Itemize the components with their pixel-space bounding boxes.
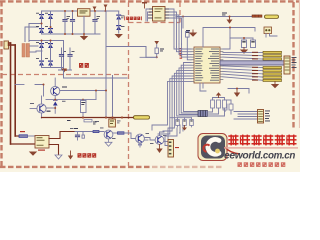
resistor R6 bbox=[229, 104, 233, 110]
wire rail y78 lower-left bbox=[64, 70, 128, 78]
inductor L1 yellow pill bbox=[265, 15, 279, 18]
LED D6 bbox=[116, 25, 121, 30]
label 电源 bbox=[79, 63, 89, 68]
junction dots top rail bbox=[41, 10, 107, 35]
ground under zener branch bbox=[116, 35, 122, 38]
outer dashed border frame bbox=[0, 1, 300, 167]
VCC arrow mid rail bbox=[93, 7, 97, 12]
resistor R3 bbox=[155, 48, 164, 54]
resistor R9 bbox=[19, 135, 28, 138]
wire crystal caps bbox=[230, 28, 277, 41]
VCC bar above IR receiver bbox=[142, 2, 147, 8]
resistor R8 below rail bbox=[84, 120, 92, 122]
ground arrow right of U5 bbox=[68, 151, 73, 160]
VCC arrow top bbox=[104, 5, 108, 12]
vertical section line bbox=[128, 2, 130, 166]
ground open under U5 bbox=[55, 155, 62, 159]
IR receiver U3 bbox=[153, 7, 166, 22]
wire lower bridge output right bbox=[59, 41, 72, 71]
ground open under Q3 bbox=[105, 139, 112, 146]
red swoosh bbox=[225, 147, 241, 154]
diode D2 bbox=[48, 14, 53, 19]
resistor R11 on drive rail bbox=[93, 130, 99, 132]
label J2 bbox=[292, 57, 297, 68]
ground under regulator bbox=[81, 34, 87, 40]
wire main brown rail bbox=[42, 117, 135, 119]
SECTION: watermark bbox=[150, 128, 300, 172]
transistor Q3 bbox=[104, 130, 113, 139]
wire resistor pack to caps row bbox=[208, 108, 225, 116]
SECTION: power supply top-left bbox=[4, 5, 125, 145]
resistor R10 bbox=[118, 132, 125, 134]
IR block right line bbox=[179, 2, 181, 23]
capacitor C11 bbox=[176, 120, 180, 126]
wire regulator gnd pin bbox=[83, 16, 85, 34]
diode D7 bbox=[39, 43, 44, 48]
wire loop to connector pins bbox=[165, 122, 183, 146]
SECTION: mcu bbox=[106, 2, 223, 139]
watermark slogan bbox=[238, 162, 242, 167]
scan edge strip right bbox=[299, 0, 300, 172]
wire to connector J3 bbox=[225, 100, 258, 119]
diode D4 bbox=[48, 28, 53, 33]
resistor R5 bbox=[223, 104, 227, 110]
resistor array RN2 bbox=[263, 67, 282, 82]
wire MCU right pins to resistor array 1 bbox=[223, 38, 263, 59]
IR receiver right pins bbox=[165, 9, 170, 18]
watermark title 电子工程世界 bbox=[228, 135, 238, 146]
wire 0V bottom rail bbox=[42, 33, 101, 35]
wire Q2 connections bbox=[30, 96, 96, 118]
transistor Q5 bbox=[155, 136, 164, 145]
inductor L2 yellow pill bbox=[134, 116, 150, 119]
diode D8 bbox=[48, 43, 53, 48]
wire Q1 collector rail bbox=[55, 78, 106, 100]
small parts near Q2 bbox=[30, 101, 66, 112]
section divider dashed lines bbox=[2, 2, 180, 166]
wire feed left amp bbox=[15, 85, 43, 97]
resistor R1 bbox=[252, 15, 262, 17]
IC U5 bbox=[35, 136, 49, 149]
wire U5 outputs bbox=[49, 132, 75, 155]
watermark background patch bbox=[224, 128, 300, 172]
junction dots crystal bbox=[229, 27, 245, 40]
MCU U1 body bbox=[194, 47, 220, 83]
ground on top rail bbox=[227, 17, 233, 24]
wire zener branch bbox=[118, 11, 120, 33]
capacitor row C9 bbox=[211, 100, 227, 108]
label 驱动电路 bbox=[78, 153, 97, 157]
IR receiver left pins bbox=[149, 9, 153, 18]
wire long top rail bbox=[176, 16, 252, 18]
label R1 bbox=[222, 13, 227, 16]
zener D5 bbox=[116, 15, 121, 20]
lower bridge top rail bbox=[30, 40, 64, 42]
SECTION: right side bbox=[176, 13, 297, 124]
horizontal power-section line bbox=[2, 74, 129, 76]
ground near R4 bbox=[190, 30, 196, 36]
wire Q4 to Q5 bbox=[144, 138, 155, 141]
label U5 bbox=[38, 150, 45, 151]
wire R7 leads bbox=[82, 100, 84, 118]
ground under RN2 bbox=[272, 81, 278, 87]
diode D11 under Q1 bbox=[53, 96, 58, 114]
labels RN2 bbox=[252, 67, 258, 81]
wire upper bridge verticals bbox=[42, 11, 51, 34]
svg-text:eeworld.com.cn: eeworld.com.cn bbox=[224, 151, 295, 162]
ground under Q5 bbox=[156, 144, 162, 153]
label R9 bbox=[20, 131, 25, 132]
transistor Q4 bbox=[136, 134, 145, 143]
capacitor C1 bbox=[62, 11, 67, 34]
ground under C13 bbox=[191, 126, 193, 128]
crystal Y1 bbox=[264, 27, 272, 34]
junction dots amp bbox=[43, 84, 108, 110]
optocoupler U4 bbox=[109, 119, 116, 127]
label 红外接收 bbox=[124, 16, 142, 20]
resistor R7 bbox=[81, 101, 87, 113]
diode D10 bbox=[48, 61, 53, 66]
transistor Q2 bbox=[37, 104, 46, 113]
label vertical red ref left of MCU bbox=[180, 48, 183, 59]
wire Q3 to R10 bbox=[113, 132, 118, 134]
watermark url eeworld.com.cn bbox=[224, 147, 298, 148]
regulator U2 7805 bbox=[78, 9, 91, 17]
junction dot top rail bbox=[182, 16, 231, 18]
junction dot node bbox=[236, 88, 238, 90]
MCU pin text rows bbox=[195, 49, 219, 81]
IR block bottom line bbox=[129, 22, 181, 24]
eeworld logo box bbox=[198, 134, 227, 161]
ground under lower bridge bbox=[61, 69, 67, 73]
wire drive rail bbox=[75, 132, 104, 139]
wire lower bridge verticals bbox=[42, 41, 64, 68]
capacitor C2 bbox=[70, 11, 75, 34]
ground under C7 bbox=[241, 48, 247, 54]
ground small left bbox=[30, 152, 36, 155]
transistor Q1 bbox=[51, 86, 60, 95]
capacitor C7 bbox=[242, 40, 247, 48]
wire MCU bottom stubs bbox=[200, 83, 206, 91]
connector J4 bbox=[168, 140, 179, 158]
power arrow above R3 bbox=[154, 41, 159, 48]
label J3 bbox=[265, 111, 270, 122]
capacitor C12 bbox=[183, 120, 187, 126]
diode D3 bbox=[39, 28, 44, 33]
diode D9 bbox=[39, 61, 44, 66]
SECTION: bottom bbox=[11, 70, 194, 160]
ground below node bbox=[234, 89, 240, 98]
capacitor C5 bbox=[67, 48, 72, 70]
MCU right pin stubs bbox=[220, 49, 223, 80]
label Q1 bbox=[62, 87, 67, 88]
resistor R4 pullup bbox=[186, 32, 190, 38]
capacitor C10 bbox=[74, 128, 80, 140]
wire filter cap row feed bbox=[170, 118, 192, 120]
labels RN1 bbox=[252, 52, 258, 60]
labels diodes caps bbox=[36, 13, 125, 59]
wire node y57 to dashed area bbox=[146, 56, 157, 58]
wire +V top rail bbox=[42, 10, 119, 12]
wire reset loop bbox=[203, 28, 255, 48]
ground under C12 bbox=[182, 126, 187, 131]
transformer T1 winding bbox=[22, 44, 30, 58]
label U3 red ref bbox=[148, 12, 151, 13]
capacitor C4 bbox=[59, 48, 64, 70]
wire Q4 emitter parts bbox=[138, 143, 142, 147]
wire vertical x112 bbox=[112, 76, 114, 118]
wire R3 to node bbox=[140, 54, 157, 58]
connector J1 mains input bbox=[4, 41, 9, 49]
capacitor C6 label bbox=[186, 30, 190, 33]
capacitor C13 bbox=[190, 120, 194, 126]
junction dots lower bridge bbox=[41, 40, 68, 72]
connector J3 bbox=[258, 110, 264, 124]
wire winding taps to upper bridge bbox=[25, 24, 42, 53]
junction dot R3 bbox=[156, 56, 158, 58]
wire IR left pins drop bbox=[146, 9, 149, 21]
wire horizontal feed y47 bbox=[106, 11, 146, 118]
wire MCU top-left pins from IR bundle bbox=[174, 37, 191, 60]
wire branch down x183 bbox=[182, 17, 184, 29]
resistor array RN1 bbox=[263, 51, 282, 60]
wire Q5 collector to connector bbox=[160, 132, 168, 142]
connector J2 display bbox=[284, 56, 290, 74]
junction dots brown rail bbox=[82, 116, 123, 118]
capacitor C3 bbox=[92, 11, 97, 34]
small parts below rail bbox=[67, 120, 97, 124]
resistor pack bottom middle bbox=[198, 111, 208, 117]
wire staircase bus from MCU lower-left pins bbox=[152, 63, 198, 140]
capacitor C8 bbox=[251, 40, 256, 48]
wire R10 to Q4 bbox=[124, 133, 136, 139]
ground under C11 bbox=[177, 126, 179, 128]
wire R9 to U5 bbox=[28, 135, 36, 137]
wire IR outputs down to MCU bbox=[170, 9, 182, 47]
wire MCU right pins to resistor array 2 bbox=[223, 66, 263, 80]
small labels SW bbox=[70, 121, 167, 144]
wire left column feeds bbox=[11, 136, 36, 144]
diode D1 bbox=[39, 14, 44, 19]
MCU left pin stubs bbox=[191, 49, 194, 81]
ground above cap row bbox=[213, 92, 225, 100]
wire mains to transformer bbox=[9, 43, 16, 144]
wire +5V node above watermark bbox=[228, 89, 249, 94]
data bus thick bbox=[220, 61, 285, 65]
